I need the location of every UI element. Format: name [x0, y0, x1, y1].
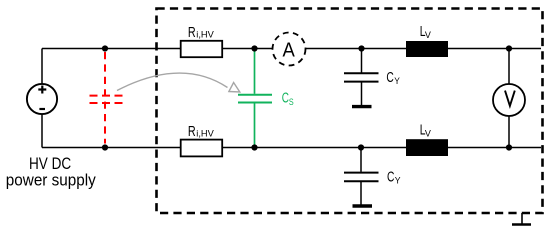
svg-text:R: R: [188, 124, 196, 140]
svg-text:V: V: [425, 127, 432, 138]
svg-text:V: V: [425, 29, 432, 40]
svg-text:S: S: [289, 96, 294, 107]
svg-text:A: A: [283, 40, 296, 62]
svg-text:R: R: [188, 25, 196, 41]
svg-text:power supply: power supply: [6, 172, 97, 190]
svg-text:Y: Y: [395, 175, 401, 186]
svg-text:i,HV: i,HV: [196, 30, 214, 41]
svg-text:C: C: [386, 70, 393, 86]
svg-text:i,HV: i,HV: [196, 129, 214, 140]
svg-text:Y: Y: [394, 75, 400, 86]
svg-text:C: C: [387, 170, 394, 186]
svg-text:HV DC: HV DC: [29, 155, 71, 173]
